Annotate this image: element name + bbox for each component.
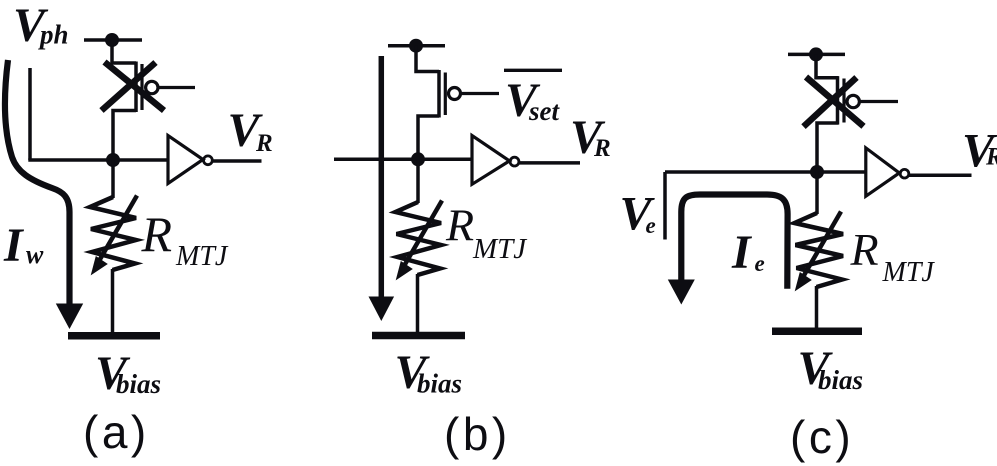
- ground bar Vbias (b): [372, 332, 465, 340]
- resistor arrow line (c): [803, 212, 841, 278]
- svg-text:bias: bias: [818, 365, 863, 395]
- wire horizontal to inverter (c): [665, 170, 866, 174]
- label RMTJ (a): [141, 206, 229, 272]
- current arrow head (b): [369, 297, 395, 322]
- wire drain lead (c): [816, 54, 839, 77]
- current arrow Ie head (c): [668, 280, 695, 305]
- wire top rail (c): [788, 53, 845, 57]
- wire gate lead (b): [461, 92, 500, 95]
- wire resistor bottom lead (a): [111, 269, 115, 333]
- label Ie: [731, 226, 765, 279]
- svg-text:(b): (b): [444, 408, 511, 460]
- node top (c): [809, 47, 823, 61]
- svg-text:R: R: [141, 206, 173, 262]
- svg-text:I: I: [731, 226, 753, 279]
- wire top rail (a): [84, 38, 142, 42]
- svg-text:bias: bias: [417, 369, 462, 399]
- svg-text:MTJ: MTJ: [175, 241, 229, 272]
- transistor Q3 gate bubble (c): [847, 95, 859, 107]
- resistor arrow line (b): [404, 201, 442, 267]
- transistor Q3 channel bar (c): [836, 76, 840, 124]
- wire resistor bottom lead (b): [416, 274, 420, 334]
- node C (c): [810, 165, 824, 179]
- label Ve: [620, 188, 656, 241]
- svg-text:R: R: [445, 200, 474, 251]
- label VR (c): [962, 124, 997, 177]
- wire top rail (b): [388, 44, 445, 48]
- svg-text:R: R: [593, 135, 611, 162]
- wire inverter output (a): [213, 159, 262, 163]
- wire inverter output (b): [520, 161, 581, 165]
- transistor Q2 channel bar (b): [437, 70, 441, 118]
- svg-text:R: R: [850, 224, 879, 275]
- label Iw: [3, 219, 44, 272]
- transistor Q2 gate bar (b): [444, 73, 447, 116]
- resistor arrow head (b): [396, 261, 413, 280]
- svg-text:e: e: [646, 213, 656, 238]
- label RMTJ (c): [850, 224, 936, 288]
- current arrow Ie arc (c): [681, 195, 787, 289]
- node B (b): [411, 152, 425, 166]
- label Vbias (a): [95, 347, 161, 400]
- svg-text:I: I: [3, 219, 25, 272]
- cross-out X over Q3 (c): [804, 77, 864, 127]
- label RMTJ (b): [445, 200, 527, 266]
- node A (a): [106, 153, 120, 167]
- wire resistor top lead (c): [815, 172, 819, 214]
- resistor RMTJ zigzag (c): [795, 213, 844, 287]
- wire resistor bottom lead (c): [815, 286, 819, 328]
- resistor RMTJ zigzag (a): [90, 197, 136, 270]
- wire source lead (a): [113, 111, 136, 161]
- wire gate lead (a): [158, 86, 195, 89]
- op-amp inverter U3 triangle (c): [866, 148, 900, 196]
- node top (a): [105, 33, 119, 47]
- svg-text:bias: bias: [116, 369, 161, 399]
- transistor Q2 gate bubble (b): [449, 88, 461, 100]
- inverter U3 output bubble (c): [900, 169, 909, 178]
- wire source lead (c): [817, 123, 839, 172]
- svg-text:MTJ: MTJ: [472, 233, 527, 265]
- svg-text:w: w: [26, 240, 44, 269]
- resistor arrow line (a): [99, 196, 137, 262]
- svg-text:R: R: [255, 130, 273, 157]
- inverter U2 output bubble (b): [510, 157, 519, 166]
- op-amp inverter U2 triangle (b): [472, 136, 510, 185]
- wire resistor top lead (b): [416, 159, 420, 203]
- ground bar Vbias (c): [772, 328, 862, 336]
- svg-text:MTJ: MTJ: [882, 257, 936, 288]
- svg-text:R: R: [985, 144, 997, 171]
- wire inverter output (c): [909, 173, 972, 177]
- wire left stub down (c): [663, 172, 667, 240]
- svg-text:ph: ph: [38, 20, 69, 50]
- node top (b): [409, 39, 423, 53]
- resistor RMTJ zigzag (b): [396, 202, 442, 275]
- svg-text:e: e: [755, 251, 765, 276]
- current arrow line (b): [379, 56, 385, 298]
- label Vbias (b): [395, 346, 463, 399]
- ground bar Vbias (a): [68, 332, 160, 340]
- svg-text:set: set: [528, 96, 560, 126]
- label Vph: [13, 0, 69, 52]
- current arrow Iw head (a): [56, 304, 83, 330]
- resistor arrow head (c): [795, 272, 812, 291]
- cross-out X over Q1 (a): [102, 62, 165, 111]
- wire horizontal to inverter (b): [334, 158, 472, 162]
- label Vbias (c): [798, 342, 864, 395]
- wire drain lead (b): [416, 46, 439, 72]
- transistor Q3 gate bar (c): [842, 79, 845, 123]
- wire source lead (b): [418, 116, 439, 159]
- wire gate lead (c): [859, 100, 898, 103]
- wire resistor top lead (a): [111, 160, 115, 198]
- inverter U1 output bubble (a): [204, 156, 213, 165]
- wire drain lead (a): [112, 40, 136, 63]
- resistor arrow head (a): [91, 256, 108, 275]
- svg-text:(a): (a): [83, 406, 150, 458]
- label VR (a): [228, 104, 273, 157]
- transistor Q1 gate bubble (a): [146, 81, 158, 93]
- transistor Q1 channel bar (a): [134, 62, 138, 113]
- label VR (b): [570, 111, 611, 164]
- transistor Q1 gate bar (a): [140, 64, 143, 110]
- current arrow Iw curve (a): [5, 60, 69, 306]
- label Vset with overbar (b): [504, 69, 562, 72]
- wire horizontal to inverter (a): [28, 158, 168, 162]
- svg-text:(c): (c): [790, 411, 854, 463]
- op-amp inverter U1 triangle (a): [168, 136, 203, 184]
- wire left vertical from Vph (a): [28, 68, 32, 160]
